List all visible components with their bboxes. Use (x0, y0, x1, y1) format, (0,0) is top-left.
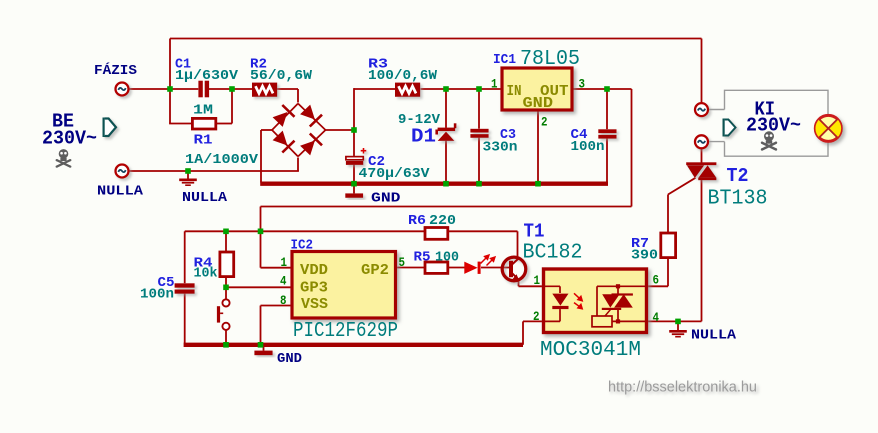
junction node J1 (167, 86, 173, 92)
svg-text:GP3: GP3 (300, 280, 328, 297)
skull KI (761, 131, 777, 150)
GND bus upper (260, 181, 608, 185)
MOC internal LED (544, 286, 569, 321)
svg-text:5: 5 (399, 255, 406, 270)
svg-text:10k: 10k (194, 266, 218, 282)
wire C4 branch (606, 89, 608, 129)
connector KI bottom (695, 135, 708, 148)
ground GND upper (345, 186, 363, 198)
svg-text:NULLA: NULLA (691, 328, 737, 344)
wire R2 to bridge top (277, 88, 298, 90)
junction node J11 (604, 86, 610, 92)
junction node J14 (223, 285, 229, 291)
MOC internal triac (592, 284, 646, 327)
connector KI top (695, 103, 708, 116)
wire R4 top (225, 231, 227, 252)
push button S1 (217, 299, 230, 330)
svg-text:http://bsselektronika.hu: http://bsselektronika.hu (608, 380, 757, 396)
resistor R4 (220, 252, 234, 277)
wire IC2 pin8 VSS (261, 305, 293, 307)
MOC light arrows (574, 293, 582, 309)
wire GND bus to MOC pin2 (522, 321, 524, 344)
wire VDD rail (185, 230, 425, 232)
zener diode D1 (435, 123, 456, 141)
ground NULLA input (179, 171, 197, 185)
resistor R2 (252, 83, 277, 97)
capacitor C5 (175, 283, 195, 293)
svg-text:100/0,6W: 100/0,6W (368, 68, 438, 84)
svg-text:230V~: 230V~ (42, 128, 97, 150)
svg-text:MOC3041M: MOC3041M (540, 339, 641, 362)
svg-text:T1: T1 (524, 221, 545, 243)
wire C3 branch (478, 89, 480, 129)
wire D1 branch (445, 89, 447, 128)
svg-text:GP2: GP2 (361, 262, 389, 279)
connector FAZIS (116, 83, 129, 96)
svg-text:R6: R6 (408, 213, 426, 229)
wire IC2 pin4 GP3 (226, 286, 293, 288)
junction node J3 (185, 168, 191, 174)
LED D2 (464, 255, 495, 274)
wire top rail FAZIS to KI (170, 38, 702, 40)
wire C1 to R2 (209, 88, 253, 90)
wire T1 emitter to MOC pin1 (518, 280, 520, 286)
wire bridge bottom to NULLA line (297, 158, 299, 172)
resistor R5 (425, 262, 448, 273)
junction node J12 (223, 229, 229, 235)
wire LED to T1 base (481, 267, 510, 269)
wire R4 bottom to button (225, 277, 227, 300)
wire between KI connector2 and triac (701, 149, 703, 164)
svg-text:R5: R5 (414, 250, 431, 266)
svg-text:1A/1000V: 1A/1000V (185, 152, 259, 168)
wire 5V rail down and across (631, 89, 633, 207)
wire IC2 pin5 GP2 to R5 (395, 267, 425, 269)
resistor R6 (425, 228, 448, 240)
svg-text:GND: GND (371, 191, 401, 207)
resistor R1 (192, 118, 215, 129)
svg-text:R1: R1 (194, 133, 213, 149)
junction node J8 (476, 86, 482, 92)
svg-text:1M: 1M (193, 103, 213, 119)
svg-text:230V~: 230V~ (746, 115, 801, 137)
KI load box (709, 90, 828, 156)
junction node J17 (675, 319, 681, 325)
arrow BE (103, 118, 117, 138)
svg-text:2: 2 (541, 115, 548, 130)
junction node J13 (258, 229, 264, 235)
svg-text:1: 1 (491, 77, 498, 92)
junction node J9 (476, 181, 482, 187)
svg-text:1: 1 (281, 255, 288, 270)
svg-text:BT138: BT138 (708, 188, 768, 211)
junction node J16 (258, 342, 264, 348)
svg-text:D1: D1 (411, 126, 436, 148)
svg-text:390: 390 (631, 248, 658, 264)
triac T2 (686, 162, 716, 180)
resistor R7 (661, 233, 676, 258)
svg-text:470µ/63V: 470µ/63V (359, 166, 431, 182)
junction node J4 (351, 127, 357, 133)
capacitor C3 (470, 129, 488, 138)
svg-text:1µ/630V: 1µ/630V (175, 68, 239, 84)
wire R5 to LED (448, 267, 465, 269)
svg-text:VSS: VSS (301, 296, 328, 313)
wire R1 to junction B (217, 123, 233, 125)
svg-text:78L05: 78L05 (520, 48, 580, 71)
junction node J10 (535, 181, 541, 187)
regulator IC1 box (502, 68, 572, 110)
capacitor C1 plates (198, 81, 202, 98)
connector NULLA (116, 165, 129, 178)
bridge rectifier B1 (272, 104, 326, 157)
svg-text:NULLA: NULLA (182, 190, 228, 206)
wire top rail drop to FAZIS node (169, 39, 171, 90)
svg-text:GND: GND (523, 95, 554, 112)
skull BE (56, 149, 72, 168)
svg-text:220: 220 (429, 213, 456, 229)
svg-text:IC2: IC2 (291, 238, 314, 254)
svg-text:PIC12F629P: PIC12F629P (293, 320, 398, 343)
capacitor C2 (346, 148, 366, 165)
svg-text:IC1: IC1 (493, 52, 516, 68)
wire button to GND bus (225, 330, 227, 343)
wire node DC+ vertical through C2 (353, 88, 355, 157)
wire KI drop from top rail (701, 39, 703, 103)
optocoupler IC3 box (544, 269, 647, 333)
wire C5 branch (184, 231, 186, 283)
svg-text:100n: 100n (140, 286, 174, 302)
wire bridge left to GND bus (261, 129, 273, 131)
svg-text:NULLA: NULLA (97, 184, 144, 200)
wire junction A down to R1 (169, 89, 171, 124)
wire IC2 pin1 VDD (260, 231, 262, 267)
wire R3 to IC1 IN (421, 88, 503, 90)
junction node J7 (443, 181, 449, 187)
capacitor C4 (598, 129, 616, 138)
ground NULLA right (669, 323, 687, 337)
wire bridge right to node DC+ (326, 129, 355, 131)
svg-text:2: 2 (533, 309, 540, 324)
svg-text:100n: 100n (571, 139, 605, 155)
IC IC2 box (292, 252, 396, 319)
wire R6 left (448, 230, 518, 232)
svg-text:GND: GND (277, 351, 302, 367)
transistor T1 (502, 257, 526, 281)
svg-text:330n: 330n (483, 140, 518, 156)
wire MOC pin4 to T2 (646, 320, 702, 322)
junction node J5 (351, 181, 357, 187)
wire FAZIS connector to C1 (129, 88, 199, 90)
wire MOC pin6 to R7 (646, 285, 668, 287)
wire R6 to T1 collector (517, 231, 519, 258)
svg-text:8: 8 (280, 293, 287, 308)
junction node J15 (223, 342, 229, 348)
wire IC1 OUT pin3 (572, 88, 632, 90)
svg-text:FÁZIS: FÁZIS (94, 61, 137, 79)
svg-text:4: 4 (653, 310, 660, 325)
resistor R3 (395, 83, 420, 97)
svg-text:100: 100 (435, 250, 459, 266)
svg-text:VDD: VDD (300, 262, 328, 279)
svg-text:T2: T2 (727, 165, 749, 187)
svg-text:6: 6 (653, 273, 660, 288)
wire DC+ to R3 (354, 88, 396, 90)
wire NULLA connector to bridge (129, 170, 299, 172)
junction node J2 (229, 86, 235, 92)
junction node J6 (443, 86, 449, 92)
svg-text:3: 3 (579, 77, 586, 92)
lamp load (815, 115, 841, 141)
svg-text:1: 1 (534, 273, 541, 288)
wire IC1 GND pin2 (537, 109, 539, 183)
svg-text:56/0,6W: 56/0,6W (250, 68, 313, 84)
ground GND lower (254, 347, 272, 355)
arrow KI (723, 119, 736, 137)
svg-text:4: 4 (280, 274, 287, 289)
wire R7 to T2 gate (667, 195, 669, 233)
svg-text:BC182: BC182 (523, 242, 583, 265)
GND bus lower (184, 343, 523, 347)
svg-text:IN: IN (507, 83, 522, 100)
